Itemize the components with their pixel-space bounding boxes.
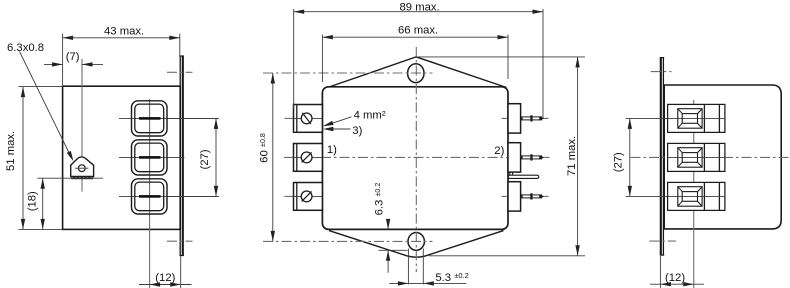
label 4 mm2 with leader bbox=[322, 110, 386, 129]
terminal row centerline 3 bbox=[119, 195, 219, 197]
svg-text:(27): (27) bbox=[612, 152, 624, 172]
top mounting hole bbox=[408, 64, 424, 83]
output fast-on block 1 (right side) bbox=[508, 104, 521, 133]
fast-on pin 1 bbox=[521, 115, 544, 121]
ground lug centerline bbox=[81, 59, 83, 192]
right view row centerline 1 bbox=[626, 117, 725, 119]
flange bottom hole centerline bbox=[167, 240, 193, 242]
dimension 89 max. bbox=[294, 1, 543, 118]
svg-text:60 ±0.8: 60 ±0.8 bbox=[258, 133, 271, 163]
svg-text:(7): (7) bbox=[66, 51, 80, 63]
terminal screw 1 bbox=[301, 113, 312, 124]
dimension 43 max. bbox=[63, 25, 180, 86]
fast-on pin 3 bbox=[521, 193, 544, 199]
svg-text:66 max.: 66 max. bbox=[398, 25, 438, 37]
svg-text:5.3 ±0.2: 5.3 ±0.2 bbox=[435, 271, 468, 284]
fast-on pin 2 bbox=[521, 154, 544, 160]
left view mounting flange plate bbox=[180, 56, 184, 256]
svg-text:(18): (18) bbox=[27, 191, 39, 211]
output fast-on block 3 (right side) bbox=[508, 182, 521, 211]
label 6.3x0.8 with leader bbox=[7, 42, 75, 162]
svg-text:71 max.: 71 max. bbox=[566, 136, 578, 176]
bottom mounting hole bbox=[408, 233, 424, 251]
terminal row centerline 1 bbox=[119, 117, 219, 119]
right view mounting flange plate bbox=[660, 58, 664, 256]
row 3 centerline segments bbox=[285, 195, 323, 197]
screw terminal T3 (side view) bbox=[132, 179, 168, 214]
dimension (27) left view bbox=[168, 118, 219, 196]
dimension 71 max. bbox=[416, 57, 585, 256]
dimension (12) right view bbox=[650, 256, 704, 288]
left view body outline bbox=[63, 86, 181, 229]
bottom mounting hole centerline bbox=[263, 240, 433, 242]
clamp terminal 1 (rear view) bbox=[668, 104, 725, 132]
terminal row centerline 2 bbox=[119, 156, 185, 158]
svg-text:1): 1) bbox=[327, 144, 337, 156]
row 2 main axis centerline bbox=[284, 156, 550, 158]
dimension 51 max. bbox=[5, 87, 63, 230]
right view row centerline 3 bbox=[626, 195, 725, 197]
right view body outline bbox=[664, 85, 781, 229]
bottom keyhole slot edges / 5.3 extension lines bbox=[407, 249, 409, 285]
terminal column centerline / (12) extension bbox=[149, 99, 151, 288]
clamp terminal 2 (rear view) bbox=[668, 143, 725, 171]
dimension 60 +-0.8 bbox=[258, 73, 275, 241]
input terminal block 2 (left side) bbox=[294, 144, 323, 172]
right view row axis 2 bbox=[631, 156, 790, 158]
svg-text:43 max.: 43 max. bbox=[104, 25, 144, 37]
input terminal block 3 (left side) bbox=[294, 183, 323, 211]
dimension 6.3 +-0.2 bbox=[373, 183, 408, 273]
dimension (18) bbox=[27, 178, 103, 229]
bottom mounting tab bbox=[329, 231, 504, 258]
label 3) with leader arrow bbox=[323, 125, 363, 137]
right flange top hole centerline bbox=[651, 71, 672, 73]
top mounting hole centerline bbox=[263, 72, 433, 74]
svg-text:6.3x0.8: 6.3x0.8 bbox=[7, 42, 44, 54]
top mounting tab bbox=[328, 57, 507, 88]
input terminal block 1 (left side) bbox=[294, 105, 323, 133]
flange top hole centerline bbox=[167, 71, 193, 73]
dimension (12) left view bbox=[139, 256, 192, 288]
svg-text:3): 3) bbox=[352, 125, 362, 137]
terminal screw 3 bbox=[301, 191, 312, 202]
middle view body outline bbox=[322, 87, 508, 230]
screw terminal T1 (side view) bbox=[132, 101, 168, 136]
svg-text:89 max.: 89 max. bbox=[400, 1, 440, 13]
terminal screw 2 bbox=[301, 152, 312, 163]
clamp terminal 3 (rear view) bbox=[668, 182, 725, 210]
dimension (27) right view bbox=[612, 118, 632, 196]
output fast-on block 2 (right side) bbox=[508, 143, 521, 172]
svg-text:4 mm²: 4 mm² bbox=[354, 110, 386, 122]
dimension 5.3 +-0.2 bbox=[389, 271, 468, 285]
dimension (7) bbox=[44, 51, 103, 67]
right flange bottom hole centerline bbox=[649, 240, 676, 242]
screw terminal T2 (side view) bbox=[132, 140, 168, 175]
svg-text:(27): (27) bbox=[199, 149, 211, 169]
right view terminal column centerline bbox=[693, 100, 695, 288]
ground fast-on tab (right side, between rows 2 and 3) bbox=[508, 172, 539, 178]
middle view vertical centerline bbox=[415, 47, 417, 272]
dimension 66 max. bbox=[322, 25, 508, 82]
svg-text:2): 2) bbox=[494, 145, 504, 157]
svg-text:(12): (12) bbox=[155, 272, 175, 284]
row 1 centerline segments bbox=[285, 117, 323, 119]
svg-text:51 max.: 51 max. bbox=[5, 131, 17, 171]
svg-text:(12): (12) bbox=[665, 272, 685, 284]
ground lug (6.3x0.8 fast-on tab) bbox=[71, 157, 94, 179]
